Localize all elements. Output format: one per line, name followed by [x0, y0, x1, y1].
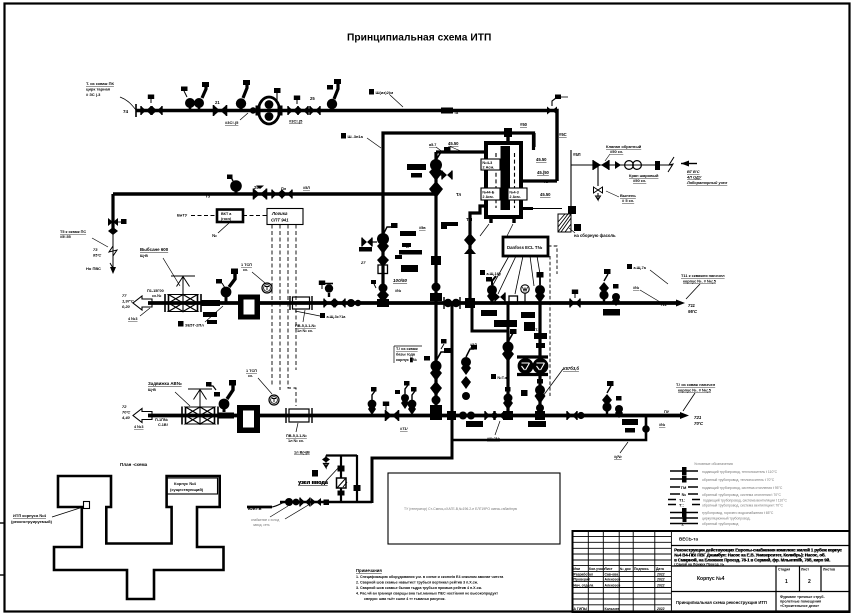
- svg-text:77: 77: [122, 293, 127, 298]
- svg-text:74: 74: [123, 109, 129, 114]
- pipe T11 middle main: [148, 301, 680, 305]
- title block left grid verticals: [588, 531, 671, 612]
- svg-text:1л В(ч)В: 1л В(ч)В: [294, 451, 310, 455]
- svg-text:сверри: шва тьёт сшnл 4 тт: сверри: шва тьёт сшnл 4 тт тьманья рисун…: [364, 597, 445, 601]
- svg-text:План -схема: План -схема: [120, 462, 148, 467]
- label flag NrTya: [491, 374, 507, 380]
- label flag near trunk x436: [441, 222, 458, 229]
- valve V8 pair on T1: [298, 106, 308, 115]
- svg-text:4 №3: 4 №3: [134, 425, 144, 429]
- svg-text:4 №3: 4 №3: [128, 317, 138, 321]
- svg-text:ИТП корпуса №4: ИТП корпуса №4: [13, 513, 47, 518]
- valve V14 pair on T3: [272, 190, 282, 199]
- black rects below T11 right: [481, 310, 535, 331]
- stamp stadia header: [778, 568, 835, 572]
- valve V11 on T3 drop: [108, 218, 118, 235]
- svg-text:подающий трубопровод, система: подающий трубопровод, система отопления …: [702, 486, 783, 490]
- pipe y152 to HX: [436, 150, 485, 153]
- left table row razrab: [574, 573, 665, 577]
- gate valve GV1 body: [169, 295, 198, 312]
- circle W regulator: [521, 285, 529, 303]
- svg-text:ЗЕ5Т-2Пл: ЗЕ5Т-2Пл: [185, 323, 204, 328]
- svg-text:ВиТУ: ВиТУ: [177, 213, 188, 218]
- dashed control drop 4: [295, 225, 297, 371]
- inlet bypass loop: [326, 455, 357, 502]
- svg-text:Лист: Лист: [605, 567, 613, 571]
- thick segment after GV1: [201, 300, 220, 306]
- svg-text:сх.: сх.: [243, 268, 248, 272]
- svg-text:#5Л: #5Л: [573, 152, 581, 157]
- svg-text:Дата: Дата: [656, 567, 664, 571]
- svg-text:2022: 2022: [656, 573, 665, 577]
- svg-text:Стадия: Стадия: [778, 568, 790, 572]
- svg-text:Сав-ова: Сав-ова: [605, 573, 619, 577]
- leader K57 label: [543, 369, 563, 396]
- svg-text:снабжение с холод: снабжение с холод: [251, 518, 279, 522]
- tick on T3 drop: [118, 219, 127, 224]
- leader hash bypass2: [620, 442, 628, 453]
- svg-text:Б: Б: [406, 245, 409, 249]
- corner valve on T1 near x557: [547, 95, 568, 115]
- svg-text:ПВ-5,3-1-№: ПВ-5,3-1-№: [295, 324, 316, 328]
- arrow T21 end: [680, 412, 689, 419]
- svg-text:711: 711: [688, 303, 696, 308]
- legend row8 line: [670, 514, 751, 522]
- valve V21 on T21 x372: [368, 387, 377, 415]
- svg-text:базы года: базы года: [396, 353, 416, 357]
- flag V16: [319, 281, 325, 290]
- small bowtie right of trunk x436: [436, 171, 452, 180]
- inlet line tick: [655, 161, 660, 170]
- svg-text:г.Самой на Ломких Проезд. №: г.Самой на Ломких Проезд. №: [674, 563, 725, 567]
- svg-text:Фурмане «речные струб-: Фурмане «речные струб-: [780, 595, 825, 599]
- control valve CV3 on T21: [206, 380, 236, 412]
- svg-text:ТУ (генератор) Ст-Смесь,сХАГЕ-: ТУ (генератор) Ст-Смесь,сХАГЕ-В,№196.2-е…: [404, 507, 518, 511]
- svg-text:2022: 2022: [656, 578, 665, 582]
- svg-text:2 Асм.: 2 Асм.: [483, 166, 495, 170]
- leader Zadvizhka: [175, 392, 190, 406]
- VKT box: [217, 210, 243, 223]
- riser x383 cluster: bowtie left: [362, 238, 377, 247]
- svg-text:#5в: #5в: [419, 226, 426, 230]
- leader ZE5T6: [205, 306, 223, 322]
- leader PV531 a: [303, 310, 305, 322]
- inlet water meter: [337, 478, 348, 488]
- svg-text:П-1П№: П-1П№: [155, 418, 168, 422]
- svg-text:2022: 2022: [656, 607, 665, 611]
- svg-text:ТМ: ТМ: [681, 485, 687, 490]
- vent arrow down: [596, 193, 601, 200]
- valve V9 pair on T1: [310, 106, 320, 115]
- svg-text:Условные обозначения: Условные обозначения: [694, 462, 733, 466]
- legend row1 line: [670, 467, 778, 475]
- junction blob x470: [465, 298, 475, 308]
- vent branch vertical: [597, 165, 599, 186]
- HX bottom-left outlet: [470, 206, 485, 303]
- pump PU2 circle: [533, 359, 547, 373]
- svg-text:Ш..3п1а: Ш..3п1а: [348, 134, 364, 139]
- svg-text:#5!.55: #5!.55: [60, 235, 71, 239]
- heat exchanger central plate: [501, 146, 511, 210]
- HX top stub x508: [506, 135, 509, 144]
- svg-text:Принципиальная схема реконстру: Принципиальная схема реконструкция ИТП: [676, 600, 767, 605]
- svg-text:#50 сх.: #50 сх.: [610, 149, 623, 154]
- leader ShZp1a: [367, 138, 381, 148]
- title block right verticals: [776, 566, 821, 612]
- vent line vertical thin: [570, 150, 572, 211]
- legend row6 line: [668, 503, 784, 508]
- riser x508 (loop to T21): [506, 331, 509, 416]
- svg-text:2. Сварной шов скамье навытист: 2. Сварной шов скамье навытист трубься в…: [356, 581, 478, 585]
- thick segment after GV2: [218, 413, 234, 419]
- svg-text:Т::: Т::: [679, 503, 684, 508]
- heat exchanger U1 body: [486, 143, 521, 217]
- svg-text:4Л ОДУ: 4Л ОДУ: [686, 175, 702, 180]
- drain funnel black square: [568, 206, 576, 214]
- svg-text:ВТ В'С: ВТ В'С: [687, 169, 700, 174]
- svg-text:721: 721: [694, 415, 702, 420]
- svg-text:Т11: Т11: [660, 302, 667, 307]
- heat exchanger internal dashed tube 2: [514, 153, 516, 208]
- HX right-bottom drain stub: [522, 207, 533, 210]
- leader 1TSP b: [258, 378, 272, 394]
- legend row3 line: [670, 485, 783, 490]
- svg-text:45.(50: 45.(50: [537, 170, 550, 175]
- valve V20 small bowtie T11 x575: [570, 290, 580, 308]
- svg-text:завод. сеть: завод. сеть: [253, 523, 270, 527]
- label Korpus No4 in plan: [167, 478, 218, 494]
- svg-text:корпус №. # №(.5: корпус №. # №(.5: [683, 279, 717, 284]
- svg-text:обратный трубопровод, теплонос: обратный трубопровод, теплоноситель t 70…: [702, 478, 775, 482]
- junction x531 T21: [535, 411, 545, 420]
- legend row4 line: [670, 492, 782, 497]
- cold water inlet pipe: [280, 501, 372, 504]
- junction blobs riser x383 at T11: [377, 284, 389, 308]
- check valve CV1 center: [601, 164, 617, 166]
- cluster below pumps x540: [535, 379, 546, 412]
- HX junction square on y133: [504, 128, 512, 137]
- pipe break symbol: [668, 157, 674, 172]
- svg-text:сх.: сх.: [248, 374, 253, 378]
- orifice FE1 on T11: [290, 296, 312, 310]
- svg-text:70'С: 70'С: [694, 421, 704, 426]
- HX bottom leader b: [507, 224, 513, 236]
- svg-text:Корпус №4: Корпус №4: [174, 481, 197, 486]
- legend row9 line: [670, 522, 738, 527]
- heat exchanger internal dashed tube 1: [495, 153, 497, 208]
- orifice FE2 on T21: [286, 408, 312, 423]
- svg-text:ПУ: ПУ: [664, 409, 670, 414]
- svg-text:корпус №. # №(.5: корпус №. # №(.5: [678, 388, 712, 393]
- svg-text:ТМ: ТМ: [466, 217, 473, 222]
- flag on V2: [148, 95, 154, 104]
- svg-text:45.50: 45.50: [536, 157, 547, 162]
- cluster small x405 on T21: [395, 381, 410, 409]
- title block outer: [573, 531, 850, 612]
- svg-text:#Т1/: #Т1/: [400, 427, 409, 431]
- svg-text:цирк тарная: цирк тарная: [86, 87, 111, 92]
- riser x383 big valve: [377, 223, 398, 267]
- inlet pipe start diagonal: [272, 502, 285, 507]
- svg-text:#50: #50: [520, 122, 528, 127]
- label flag ZE5T6: [178, 321, 204, 328]
- square outline x513: [509, 296, 518, 304]
- left table row prover: [574, 578, 665, 582]
- leader uzel vvoda: [326, 466, 340, 481]
- inlet discharge valve and arrow: [322, 456, 330, 468]
- black bars left of trunk x436: [407, 164, 426, 178]
- pipe T3 left drop: [111, 194, 114, 233]
- blob on bypass x646: [642, 425, 650, 433]
- pump P1 on T11: [238, 295, 260, 320]
- leader inlet notes: [270, 506, 288, 517]
- leader T1 source: [120, 97, 136, 110]
- cold inlet line y165: [571, 164, 672, 166]
- T21 inlet arrow outline: [133, 409, 152, 423]
- cluster C20 on T11 x600-620: [599, 269, 620, 306]
- pipe T3 main: [113, 192, 437, 195]
- dashed line VKT to SPT: [243, 215, 267, 217]
- HX nameplate box right-bottom: [508, 188, 527, 200]
- svg-text:Проверил: Проверил: [574, 578, 591, 582]
- dashed control drop 3: [288, 225, 296, 407]
- valve V4 circle-top on T1: [185, 98, 204, 111]
- bowtie pair V25 T21 x493: [485, 411, 504, 420]
- leader aSh7a: [650, 270, 668, 284]
- valve V18 pair on T11 x450: [444, 297, 460, 309]
- pipe T1 top main: [136, 111, 557, 182]
- svg-text:щ-в: щ-в: [140, 253, 148, 258]
- label flag Sh2m top right: [369, 89, 393, 95]
- svg-text:#3С!.(5: #3С!.(5: [225, 120, 239, 125]
- U-loop below T11: [472, 303, 508, 331]
- HX nameplate box left-bottom: [481, 188, 500, 200]
- leader T21 to blocks: [683, 393, 695, 411]
- svg-text:СПТ 941: СПТ 941: [271, 218, 289, 223]
- arrowhead T3 outfall: [110, 267, 116, 274]
- svg-text:Т.! из скваж: Т.! из скваж: [396, 347, 418, 351]
- title block left grid horizontals: [573, 537, 672, 605]
- svg-text:4. Рас.чй ан границя сварщы: 4. Рас.чй ан границя сварщы вна тьё.манн…: [356, 592, 498, 596]
- svg-text:подающий трубопровод, теплонос: подающий трубопровод, теплоноситель t 11…: [702, 470, 778, 474]
- pump PU1 circle: [518, 359, 532, 373]
- svg-text:95'С: 95'С: [688, 309, 698, 314]
- bowtie V22 on T21 x390: [383, 402, 399, 422]
- leader 4 hash: [140, 308, 150, 316]
- black bars below T11 left: [203, 312, 217, 324]
- svg-text:# 5 сх.: # 5 сх.: [622, 198, 634, 203]
- Danfoss dashed to reg valve: [548, 246, 557, 274]
- elevator E1 on T1: [256, 97, 283, 124]
- left table row gip: [574, 607, 665, 611]
- stamp stadia values: [785, 579, 811, 585]
- svg-text:25: 25: [310, 96, 315, 101]
- leader T11 to blocks: [686, 284, 700, 299]
- inlet arrow: [681, 163, 697, 165]
- svg-text:(госч): (госч): [221, 217, 232, 221]
- svg-text:№: №: [682, 492, 687, 497]
- reg valve V19 with dashed stem: [535, 272, 545, 303]
- valve V16 pair on T11: [324, 284, 334, 308]
- cluster on riser x508 upper: [502, 329, 517, 362]
- leader inlet notes 2: [285, 504, 310, 519]
- svg-text:21: 21: [215, 100, 220, 105]
- square outline on riser x383: [378, 265, 388, 274]
- valve V26 pair T21 x577: [567, 411, 585, 420]
- cluster on trunk x470 midway: [461, 345, 477, 400]
- svg-text:ВКТ а: ВКТ а: [221, 212, 232, 216]
- HX top inlet vertical x534: [532, 133, 535, 147]
- HX bottom stub b: [512, 216, 515, 223]
- title block right horizontals: [671, 546, 849, 592]
- inlet assembly: blobs on cold pipe: [285, 498, 321, 507]
- stamp paragraph line1: [674, 548, 843, 553]
- svg-text:а.Щ.7а: а.Щ.7а: [634, 266, 647, 270]
- label uzel vvoda bold: [298, 480, 329, 486]
- svg-text:а5.7: а5.7: [429, 143, 436, 147]
- HX bottom leader a: [480, 224, 489, 236]
- svg-text:№Т.я: №Т.я: [498, 376, 507, 380]
- svg-text:3. Сварной шов скамье бычая т: 3. Сварной шов скамье бычая тьдра трубьс…: [356, 586, 482, 590]
- svg-text:Кол.участ: Кол.участ: [589, 567, 606, 571]
- svg-text:1 ТСП: 1 ТСП: [246, 369, 257, 373]
- svg-text:Т.! из скваж нанэчел: Т.! из скваж нанэчел: [676, 382, 716, 387]
- cluster C17 valves x490-503: [486, 276, 505, 303]
- legend row2 line: [670, 476, 775, 483]
- svg-text:№4-3: №4-3: [483, 161, 493, 165]
- valve V15 pair on T3: [282, 190, 292, 199]
- valve V7 pair on T1: [288, 106, 298, 115]
- svg-text:73: 73: [93, 247, 98, 252]
- svg-text:25: 25: [254, 185, 259, 190]
- leader Sh2m: [390, 95, 403, 107]
- leader ITP label: [52, 507, 83, 517]
- sensor TE1: [262, 283, 272, 293]
- valve V23 on T21 x412: [408, 387, 417, 415]
- svg-text:#50 сх.: #50 сх.: [633, 178, 646, 183]
- T1 start tick: [135, 104, 137, 117]
- black rects below C24: [622, 419, 638, 433]
- svg-text:Корпус №4: Корпус №4: [697, 576, 725, 582]
- svg-text:Тл: Тл: [456, 192, 461, 197]
- label flag aSh7a: [627, 264, 647, 270]
- svg-text:Колычев: Колычев: [605, 607, 620, 611]
- dashed vertical x550 lower: [549, 256, 551, 396]
- label T! from wells box: [394, 346, 422, 363]
- HX nameplate box left-top: [481, 159, 500, 170]
- cluster on trunk x436 midway: [424, 348, 451, 412]
- leader a57: [436, 147, 444, 153]
- pump branch risers: [517, 303, 548, 416]
- svg-text:85'С: 85'С: [93, 253, 101, 258]
- svg-text:4,40: 4,40: [121, 415, 131, 420]
- trunk x452 (T11 to drain loop): [372, 303, 452, 503]
- svg-text:Листов: Листов: [823, 568, 835, 572]
- stamp paragraph line2: [674, 553, 826, 558]
- valve V1 on HX lower trunk: [464, 233, 476, 254]
- svg-text:# ЗС (.3: # ЗС (.3: [86, 92, 101, 97]
- flag on V7: [294, 96, 300, 105]
- HX right-mid outlet: [522, 179, 557, 182]
- svg-text:100/50: 100/50: [393, 278, 407, 283]
- svg-text:Принципиальная схема ИТП: Принципиальная схема ИТП: [347, 33, 491, 44]
- drain tick: [574, 224, 581, 231]
- leader T3 well: [92, 238, 108, 247]
- border fold tick left 1: [0, 522, 5, 524]
- svg-text:сх.№: сх.№: [152, 294, 161, 298]
- actuator on V4: [202, 82, 209, 98]
- thick node mark Ta on T1: [441, 108, 459, 116]
- svg-text:(существующий): (существующий): [170, 487, 204, 492]
- svg-text:обратный трубопровод, система: обратный трубопровод, система вентиляции…: [702, 504, 784, 508]
- svg-text:Задвижка АВ№: Задвижка АВ№: [148, 381, 182, 386]
- svg-text:45.50: 45.50: [540, 192, 551, 197]
- svg-text:(реконструируемый): (реконструируемый): [11, 519, 53, 524]
- black rects above pumps: [521, 333, 547, 396]
- black bars above T11 labels: [395, 231, 422, 272]
- header row left table: [574, 567, 664, 571]
- svg-text:#№: #№: [633, 286, 639, 290]
- stamp paragraph line3: [674, 558, 830, 563]
- svg-text:Лабораторный узел: Лабораторный узел: [686, 180, 728, 185]
- ball valve BV1: [615, 161, 641, 170]
- svg-text:Т.1: Т.1: [535, 327, 541, 332]
- black bar left of riser: [359, 247, 372, 252]
- dashed line ViTU to VKT: [191, 215, 216, 217]
- svg-text:подающий трубопровод, система: подающий трубопровод, система вентиляции…: [703, 499, 788, 503]
- valve V13 bowtie on T3: [254, 186, 267, 200]
- svg-text:П1-15Г00: П1-15Г00: [147, 289, 164, 293]
- svg-text:трубопровод, горячего водоснаб: трубопровод, горячего водоснабжения t 65…: [702, 511, 774, 515]
- leader drain label: [569, 228, 575, 233]
- svg-text:№4-3: №4-3: [510, 191, 519, 195]
- control valve CV2 on T11: [216, 269, 238, 304]
- valve V5 bowtie on T1: [214, 105, 227, 116]
- leader aSh3s: [295, 311, 320, 316]
- leader 1TSP a: [252, 272, 265, 283]
- svg-text:#(№: #(№: [614, 455, 622, 459]
- drain line thin: [533, 208, 562, 210]
- svg-text:#№: #№: [395, 289, 401, 293]
- label flag aSh3s: [320, 313, 346, 319]
- svg-text:Но ПВС: Но ПВС: [86, 266, 101, 271]
- sensor TE2: [269, 395, 279, 405]
- T21 bypass loop: [452, 416, 646, 441]
- leader vypusk: [606, 191, 619, 197]
- svg-text:72: 72: [122, 404, 127, 409]
- trunk x436 lower (T11 to T21): [434, 303, 437, 416]
- junction blob x436 y260: [431, 256, 441, 265]
- T11 inlet arrow outline: [133, 296, 152, 310]
- riser x383 (T3 to T11): [381, 194, 384, 303]
- svg-text:1 ТСП: 1 ТСП: [241, 263, 252, 267]
- pipe T21 lower main: [148, 414, 684, 418]
- svg-text:27: 27: [360, 260, 366, 265]
- svg-text:Разработал: Разработал: [574, 573, 594, 577]
- svg-text:2: 2: [808, 579, 811, 585]
- border fold tick left 2: [0, 574, 5, 576]
- svg-text:2 Асм.: 2 Асм.: [510, 195, 521, 199]
- svg-text:1,97'С: 1,97'С: [122, 299, 134, 304]
- svg-text:Логика: Логика: [271, 211, 288, 216]
- svg-text:узел ввода: узел ввода: [298, 480, 329, 486]
- label flag aSh16u: [480, 270, 502, 276]
- svg-text:1л № сх.: 1л № сх.: [297, 329, 313, 333]
- svg-text:70'С: 70'С: [122, 410, 130, 415]
- svg-text:А ГИПЫ: А ГИПЫ: [574, 607, 588, 611]
- pipe T3 outfall thin: [109, 233, 117, 268]
- junction x508 T21: [503, 411, 513, 420]
